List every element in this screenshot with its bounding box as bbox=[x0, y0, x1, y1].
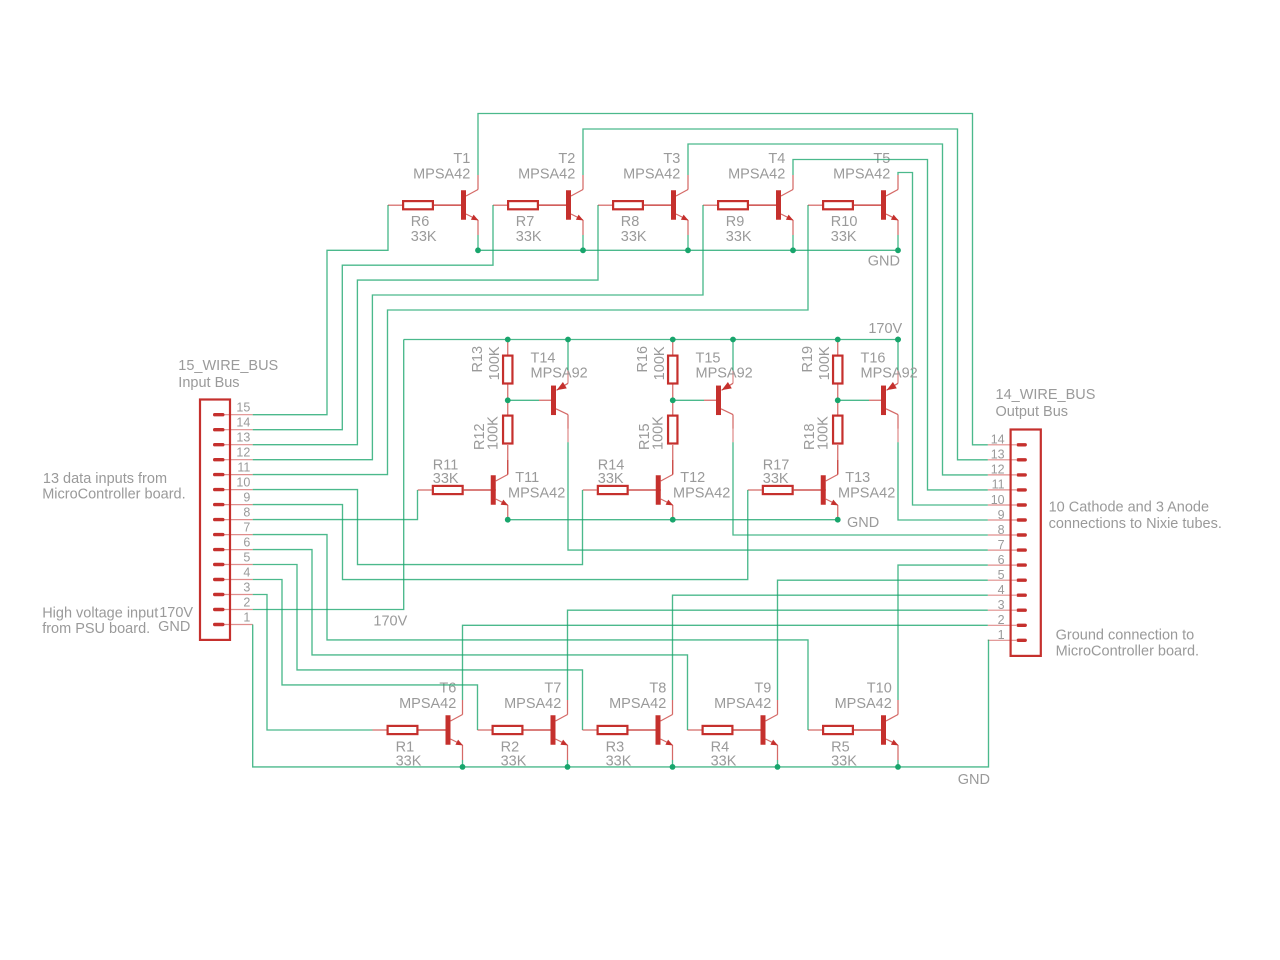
transistor T1 MPSA42 bbox=[434, 175, 478, 235]
svg-text:6: 6 bbox=[998, 553, 1005, 567]
svg-text:T9: T9 bbox=[754, 681, 771, 697]
wire X1 pin 15 to R6 (T1 base) bbox=[253, 205, 388, 415]
connector X2 pin 10 pad bbox=[1017, 503, 1027, 506]
connector X1 pin 15 pad bbox=[213, 413, 225, 416]
wire T6 collector to X2 pin 2 bbox=[463, 625, 988, 700]
connector X2 pin 11 pad bbox=[1017, 488, 1027, 491]
connector X1 pin 10 stub bbox=[219, 489, 253, 491]
wire R19/R18 node to T16 base bbox=[838, 399, 869, 401]
resistor R15 100K bbox=[668, 400, 677, 474]
connector X2 pin 2 number bbox=[998, 613, 1005, 627]
connector X1 pin 2 number bbox=[243, 595, 250, 609]
connector X2 pin 3 pad bbox=[1017, 609, 1027, 612]
svg-text:MPSA42: MPSA42 bbox=[609, 696, 666, 712]
connector X2 pin 12 pad bbox=[1017, 473, 1027, 476]
svg-text:MPSA42: MPSA42 bbox=[835, 696, 892, 712]
resistor R14 label bbox=[598, 457, 625, 487]
svg-text:R10: R10 bbox=[831, 214, 858, 230]
resistor R8 label bbox=[621, 214, 647, 245]
connector X1 pin 3 stub bbox=[219, 594, 253, 596]
svg-text:MPSA42: MPSA42 bbox=[518, 167, 575, 183]
connector X2 pin 7 number bbox=[998, 538, 1005, 552]
wire T collector x=478 to X2 pin 14 bbox=[478, 114, 988, 445]
resistor R13 label bbox=[470, 346, 503, 380]
svg-text:GND: GND bbox=[868, 253, 900, 269]
svg-text:connections to Nixie tubes.: connections to Nixie tubes. bbox=[1049, 516, 1222, 532]
connector X2 pin 14 number bbox=[991, 433, 1005, 447]
svg-text:T4: T4 bbox=[768, 151, 785, 167]
svg-text:14_WIRE_BUS: 14_WIRE_BUS bbox=[996, 387, 1096, 403]
resistor R19 label bbox=[800, 346, 833, 380]
connector X1 pin 12 stub bbox=[219, 459, 253, 461]
junction bottom GND x=672.5 bbox=[670, 764, 676, 770]
svg-text:R13: R13 bbox=[470, 346, 486, 373]
svg-text:4: 4 bbox=[998, 583, 1005, 597]
wire T emitter stub x=898 bbox=[897, 235, 899, 250]
svg-text:13 data inputs from: 13 data inputs from bbox=[43, 471, 167, 487]
svg-text:33K: 33K bbox=[763, 471, 789, 487]
net label GND middle bbox=[847, 515, 879, 531]
svg-text:R6: R6 bbox=[411, 214, 430, 230]
transistor T9 MPSA42 bbox=[734, 700, 778, 760]
resistor R5 33K bbox=[808, 726, 886, 734]
connector X2 pin 13 stub bbox=[988, 459, 1016, 461]
connector X1 pin 7 number bbox=[243, 521, 250, 535]
connector X1 pin 3 pad bbox=[213, 593, 225, 596]
connector X2 pin 5 stub bbox=[988, 579, 1016, 581]
svg-text:Output Bus: Output Bus bbox=[996, 404, 1069, 420]
svg-text:T12: T12 bbox=[680, 470, 705, 486]
transistor T6 label bbox=[399, 681, 456, 712]
connector X1 pin 5 pad bbox=[213, 563, 225, 566]
svg-text:MPSA42: MPSA42 bbox=[673, 485, 730, 501]
svg-text:10 Cathode and 3 Anode: 10 Cathode and 3 Anode bbox=[1049, 500, 1209, 516]
svg-text:100K: 100K bbox=[651, 416, 667, 450]
svg-text:R19: R19 bbox=[800, 346, 816, 373]
net label 170V top bbox=[868, 321, 902, 337]
svg-text:9: 9 bbox=[998, 508, 1005, 522]
connector X1 pin 9 stub bbox=[219, 504, 253, 506]
junction bottom GND x=462.5 bbox=[460, 764, 466, 770]
junction 170V x=837.75 bbox=[835, 337, 841, 343]
resistor R1 33K bbox=[373, 726, 451, 734]
resistor R3 33K bbox=[583, 726, 661, 734]
svg-text:6: 6 bbox=[243, 536, 250, 550]
junction 170V x=898 bbox=[895, 337, 901, 343]
svg-text:14: 14 bbox=[991, 433, 1005, 447]
transistor T5 label bbox=[833, 151, 890, 183]
junction 170V x=733 bbox=[730, 337, 736, 343]
connector X2 14_WIRE_BUS body bbox=[1011, 430, 1041, 656]
svg-text:R16: R16 bbox=[635, 346, 651, 373]
connector X2 pin 7 stub bbox=[988, 549, 1016, 551]
wire 170V rail bbox=[404, 339, 898, 341]
wire R13/R12 node to T14 base bbox=[508, 399, 539, 401]
svg-text:T1: T1 bbox=[453, 151, 470, 167]
junction 170V x=507.75 bbox=[505, 337, 511, 343]
connector X2 pin 6 stub bbox=[988, 564, 1016, 566]
svg-text:T11: T11 bbox=[515, 470, 539, 486]
resistor R4 33K bbox=[688, 726, 766, 734]
note: high voltage input bbox=[42, 605, 158, 637]
connector X1 pin 9 number bbox=[243, 491, 250, 505]
wire T emitter stub x=898 bottom bbox=[897, 760, 899, 767]
connector X2 pin 6 pad bbox=[1017, 563, 1027, 566]
connector X2 pin 8 stub bbox=[988, 534, 1016, 536]
connector X2 pin 13 number bbox=[991, 448, 1005, 462]
net label GND top bbox=[868, 253, 900, 269]
junction top GND x=583 bbox=[580, 247, 586, 253]
svg-text:Input Bus: Input Bus bbox=[178, 375, 239, 391]
net label 170V at X1 pin 2 bbox=[159, 605, 193, 621]
wire 170V rail to T15 emitter bbox=[732, 340, 734, 371]
resistor R4 label bbox=[711, 739, 737, 769]
connector X1 pin 2 stub bbox=[219, 609, 253, 611]
svg-text:GND: GND bbox=[958, 772, 990, 788]
connector X1 pin 13 number bbox=[236, 431, 250, 445]
svg-text:9: 9 bbox=[243, 491, 250, 505]
junction top GND x=898 bbox=[895, 247, 901, 253]
connector X2 pin 13 pad bbox=[1017, 458, 1027, 461]
svg-text:T10: T10 bbox=[867, 681, 892, 697]
junction top GND x=478 bbox=[475, 247, 481, 253]
transistor T9 label bbox=[714, 681, 771, 712]
resistor R10 33K bbox=[808, 201, 886, 209]
note: nixie connections bbox=[1049, 500, 1222, 532]
wire X1 pin 12 to R9 (T4 base) bbox=[253, 205, 703, 460]
connector X2 pin 9 pad bbox=[1017, 518, 1027, 521]
connector X1 pin 8 stub bbox=[219, 519, 253, 521]
resistor R10 label bbox=[831, 214, 858, 245]
svg-text:12: 12 bbox=[991, 463, 1005, 477]
wire T emitter stub x=793 bbox=[792, 235, 794, 250]
transistor T11 MPSA42 bbox=[464, 460, 508, 520]
resistor R9 33K bbox=[703, 201, 781, 209]
svg-text:3: 3 bbox=[243, 580, 250, 594]
connector X2 pin 14 stub bbox=[988, 444, 1016, 446]
resistor R17 33K bbox=[748, 486, 826, 494]
svg-text:T7: T7 bbox=[544, 681, 561, 697]
resistor R7 33K bbox=[493, 201, 571, 209]
svg-text:MPSA42: MPSA42 bbox=[399, 696, 456, 712]
svg-text:33K: 33K bbox=[726, 229, 752, 245]
wire T10 collector to X2 pin 6 bbox=[898, 565, 988, 700]
svg-text:100K: 100K bbox=[486, 416, 502, 450]
transistor T14 MPSA92 bbox=[539, 370, 568, 442]
junction divider node x=672.75 bbox=[670, 397, 676, 403]
wire T14 collector to X2 pin 7 bbox=[568, 442, 988, 550]
svg-text:100K: 100K bbox=[652, 346, 668, 380]
svg-text:7: 7 bbox=[243, 521, 250, 535]
note: data inputs bbox=[42, 471, 185, 503]
svg-text:13: 13 bbox=[236, 431, 250, 445]
transistor T6 MPSA42 bbox=[419, 700, 463, 760]
connector X2 pin 1 pad bbox=[1017, 639, 1027, 642]
transistor T2 label bbox=[518, 151, 575, 183]
connector X2 pin 5 number bbox=[998, 568, 1005, 582]
transistor T1 label bbox=[413, 151, 470, 183]
connector X2 pin 2 pad bbox=[1017, 624, 1027, 627]
svg-text:T14: T14 bbox=[531, 351, 556, 367]
resistor R12 100K bbox=[503, 400, 512, 474]
wire X1 pin 11 to R10 (T5 base) bbox=[253, 205, 808, 475]
junction mid GND x=837.75 bbox=[835, 517, 841, 523]
transistor T15 label bbox=[696, 351, 753, 382]
resistor R17 label bbox=[763, 457, 790, 487]
transistor T2 MPSA42 bbox=[539, 175, 583, 235]
wire T15 collector to X2 pin 8 bbox=[733, 442, 988, 535]
svg-text:T15: T15 bbox=[696, 351, 721, 367]
connector X1 pin 14 number bbox=[236, 416, 250, 430]
connector X2 pin 12 number bbox=[991, 463, 1005, 477]
wire X1 pin 8 to R11 (T11 base) bbox=[253, 490, 418, 520]
wire X1 pin 5 to R3 (T8 base) bbox=[253, 565, 583, 731]
svg-text:MicroController board.: MicroController board. bbox=[1056, 644, 1199, 660]
connector X1 pin 4 pad bbox=[213, 578, 225, 581]
svg-text:5: 5 bbox=[998, 568, 1005, 582]
svg-text:33K: 33K bbox=[411, 229, 437, 245]
wire X1 pin 3 to R1 (T6 base) bbox=[253, 595, 373, 731]
svg-text:MPSA42: MPSA42 bbox=[623, 167, 680, 183]
svg-text:T8: T8 bbox=[649, 681, 666, 697]
connector X1 pin 9 pad bbox=[213, 503, 225, 506]
junction mid GND x=672.75 bbox=[670, 517, 676, 523]
wire X1 pin 6 to R4 (T9 base) bbox=[253, 550, 688, 730]
connector X2 pin 12 stub bbox=[988, 474, 1016, 476]
connector X1 pin 8 number bbox=[243, 506, 250, 520]
transistor T13 MPSA42 bbox=[794, 460, 838, 520]
wire T emitter stub x=478 bbox=[477, 235, 479, 250]
svg-text:R8: R8 bbox=[621, 214, 640, 230]
transistor T7 MPSA42 bbox=[524, 700, 568, 760]
svg-text:8: 8 bbox=[998, 523, 1005, 537]
svg-text:11: 11 bbox=[237, 461, 250, 475]
svg-text:4: 4 bbox=[243, 565, 250, 579]
svg-text:MPSA42: MPSA42 bbox=[728, 167, 785, 183]
net label GND at X1 pin 1 bbox=[158, 619, 190, 635]
wire middle GND rail bbox=[508, 519, 838, 521]
connector X2 pin 8 pad bbox=[1017, 533, 1027, 536]
connector X1 pin 11 stub bbox=[219, 474, 253, 476]
junction 170V right end bbox=[895, 337, 901, 343]
note: ground connection bbox=[1056, 628, 1199, 660]
connector X2 pin 6 number bbox=[998, 553, 1005, 567]
resistor R11 label bbox=[433, 457, 459, 487]
wire T7 collector to X2 pin 3 bbox=[568, 610, 988, 700]
transistor T3 label bbox=[623, 151, 680, 183]
resistor R16 label bbox=[635, 346, 668, 380]
connector X1 pin 13 stub bbox=[219, 444, 253, 446]
connector X1 pin 10 pad bbox=[213, 488, 225, 491]
transistor T8 label bbox=[609, 681, 666, 712]
wire X1 pin 13 to R8 (T3 base) bbox=[253, 205, 598, 445]
svg-text:11: 11 bbox=[992, 478, 1005, 492]
svg-text:10: 10 bbox=[236, 476, 250, 490]
resistor R19 100K bbox=[833, 340, 842, 401]
svg-text:8: 8 bbox=[243, 506, 250, 520]
connector X1 pin 12 pad bbox=[213, 458, 225, 461]
svg-text:33K: 33K bbox=[516, 229, 542, 245]
connector X1 pin 11 pad bbox=[213, 473, 225, 476]
transistor T10 MPSA42 bbox=[854, 700, 898, 760]
resistor R12 label bbox=[472, 416, 502, 450]
junction mid GND x=507.75 bbox=[505, 517, 511, 523]
connector X1 pin 15 stub bbox=[219, 414, 253, 416]
connector X2 label bbox=[996, 387, 1096, 420]
svg-text:MPSA42: MPSA42 bbox=[413, 167, 470, 183]
svg-text:T2: T2 bbox=[558, 151, 575, 167]
svg-text:T16: T16 bbox=[861, 351, 886, 367]
connector X1 pin 10 number bbox=[236, 476, 250, 490]
wire T16 collector to X2 pin 9 bbox=[898, 442, 988, 520]
connector X1 pin 1 number bbox=[243, 610, 250, 624]
wire X1 pin 1 GND down and bottom rail bbox=[253, 625, 989, 767]
connector X1 label bbox=[178, 358, 278, 391]
transistor T16 label bbox=[861, 351, 918, 382]
transistor T8 MPSA42 bbox=[629, 700, 673, 760]
net label GND bottom bbox=[958, 772, 990, 788]
wire 170V rail to T14 emitter bbox=[567, 340, 569, 371]
connector X2 pin 7 pad bbox=[1017, 548, 1027, 551]
connector X2 pin 1 stub bbox=[988, 639, 1016, 641]
wire T emitter stub x=462.5 bottom bbox=[462, 760, 464, 767]
junction top GND x=793 bbox=[790, 247, 796, 253]
connector X1 pin 12 number bbox=[236, 446, 250, 460]
svg-text:MPSA42: MPSA42 bbox=[504, 696, 561, 712]
svg-text:MPSA42: MPSA42 bbox=[508, 485, 565, 501]
connector X2 pin 4 pad bbox=[1017, 594, 1027, 597]
svg-text:R7: R7 bbox=[516, 214, 535, 230]
connector X1 pin 7 pad bbox=[213, 533, 225, 536]
svg-text:GND: GND bbox=[847, 515, 879, 531]
wire top GND rail bbox=[478, 249, 898, 251]
svg-text:MPSA92: MPSA92 bbox=[696, 366, 753, 382]
svg-text:33K: 33K bbox=[831, 229, 857, 245]
svg-text:from PSU board.: from PSU board. bbox=[42, 621, 150, 637]
resistor R1 label bbox=[396, 739, 422, 769]
resistor R6 33K bbox=[388, 201, 466, 209]
junction 170V x=568 bbox=[565, 337, 571, 343]
svg-text:MPSA92: MPSA92 bbox=[861, 366, 918, 382]
connector X1 pin 3 number bbox=[243, 580, 250, 594]
connector X1 pin 13 pad bbox=[213, 443, 225, 446]
wire T9 collector to X2 pin 5 bbox=[778, 580, 988, 700]
svg-text:2: 2 bbox=[243, 595, 250, 609]
resistor R11 33K bbox=[418, 486, 496, 494]
connector X2 pin 4 number bbox=[998, 583, 1005, 597]
svg-text:Ground connection to: Ground connection to bbox=[1056, 628, 1195, 644]
connector X1 pin 6 pad bbox=[213, 548, 225, 551]
svg-text:MPSA42: MPSA42 bbox=[833, 167, 890, 183]
wire X1 pin 9 to R17 (T13 base) bbox=[253, 490, 748, 580]
connector X2 pin 2 stub bbox=[988, 624, 1016, 626]
svg-text:170V: 170V bbox=[868, 321, 902, 337]
connector X1 pin 1 stub bbox=[219, 624, 253, 626]
svg-text:1: 1 bbox=[243, 610, 250, 624]
resistor R7 label bbox=[516, 214, 542, 245]
connector X1 pin 15 number bbox=[236, 401, 250, 415]
junction bottom GND x=567.5 bbox=[565, 764, 571, 770]
connector X1 pin 8 pad bbox=[213, 518, 225, 521]
connector X2 pin 10 stub bbox=[988, 504, 1016, 506]
svg-text:3: 3 bbox=[998, 598, 1005, 612]
resistor R2 33K bbox=[478, 726, 556, 734]
connector X2 pin 1 number bbox=[998, 628, 1005, 642]
wire T collector x=688 to X2 pin 12 bbox=[688, 144, 988, 475]
connector X1 pin 11 number bbox=[237, 461, 250, 475]
svg-text:15: 15 bbox=[236, 401, 250, 415]
junction divider node x=507.75 bbox=[505, 397, 511, 403]
svg-text:33K: 33K bbox=[621, 229, 647, 245]
connector X1 pin 2 pad bbox=[213, 608, 225, 611]
wire T collector x=583 to X2 pin 13 bbox=[583, 129, 988, 460]
transistor T10 label bbox=[835, 681, 892, 712]
connector X1 pin 7 stub bbox=[219, 534, 253, 536]
resistor R9 label bbox=[726, 214, 752, 245]
transistor T12 MPSA42 bbox=[629, 460, 673, 520]
connector X2 pin 9 stub bbox=[988, 519, 1016, 521]
transistor T3 MPSA42 bbox=[644, 175, 688, 235]
connector X1 pin 6 stub bbox=[219, 549, 253, 551]
wire T8 collector to X2 pin 4 bbox=[673, 595, 988, 700]
connector X2 pin 5 pad bbox=[1017, 579, 1027, 582]
junction bottom GND x=898 bbox=[895, 764, 901, 770]
junction divider node x=837.75 bbox=[835, 397, 841, 403]
resistor R18 label bbox=[802, 416, 832, 450]
wire T emitter stub x=567.5 bottom bbox=[567, 760, 569, 767]
svg-text:10: 10 bbox=[991, 493, 1005, 507]
transistor T15 MPSA92 bbox=[704, 370, 733, 442]
wire X1 pin 7 to R5 (T10 base) bbox=[253, 535, 808, 730]
svg-text:5: 5 bbox=[243, 550, 250, 564]
svg-text:2: 2 bbox=[998, 613, 1005, 627]
transistor T5 MPSA42 bbox=[854, 175, 898, 235]
svg-text:MicroController board.: MicroController board. bbox=[42, 487, 185, 503]
resistor R8 33K bbox=[598, 201, 676, 209]
connector X2 pin 10 number bbox=[991, 493, 1005, 507]
transistor T13 label bbox=[838, 470, 895, 501]
junction bottom GND x=777.5 bbox=[775, 764, 781, 770]
junction 170V x=672.75 bbox=[670, 337, 676, 343]
svg-text:MPSA42: MPSA42 bbox=[714, 696, 771, 712]
connector X2 pin 3 stub bbox=[988, 609, 1016, 611]
svg-text:7: 7 bbox=[998, 538, 1005, 552]
svg-text:T3: T3 bbox=[663, 151, 680, 167]
svg-text:12: 12 bbox=[236, 446, 250, 460]
connector X1 pin 6 number bbox=[243, 536, 250, 550]
connector X2 pin 11 stub bbox=[988, 489, 1016, 491]
svg-text:33K: 33K bbox=[598, 471, 624, 487]
wire X1 pin 10 to R14 (T12 base) bbox=[253, 490, 583, 565]
svg-text:14: 14 bbox=[236, 416, 250, 430]
resistor R13 100K bbox=[503, 340, 512, 401]
connector X1 pin 5 stub bbox=[219, 564, 253, 566]
wire T emitter stub x=672.5 bottom bbox=[672, 760, 674, 767]
connector X1 pin 5 number bbox=[243, 550, 250, 564]
connector X2 pin 11 number bbox=[992, 478, 1005, 492]
resistor R5 label bbox=[831, 739, 857, 769]
svg-text:13: 13 bbox=[991, 448, 1005, 462]
wire R16/R15 node to T15 base bbox=[673, 399, 704, 401]
svg-text:R9: R9 bbox=[726, 214, 745, 230]
connector X1 pin 4 stub bbox=[219, 579, 253, 581]
transistor T14 label bbox=[531, 351, 588, 382]
connector X2 pin 4 stub bbox=[988, 594, 1016, 596]
transistor T11 label bbox=[508, 470, 565, 501]
resistor R3 label bbox=[606, 739, 632, 769]
connector X1 15_WIRE_BUS body bbox=[200, 400, 230, 640]
svg-text:15_WIRE_BUS: 15_WIRE_BUS bbox=[178, 358, 278, 374]
